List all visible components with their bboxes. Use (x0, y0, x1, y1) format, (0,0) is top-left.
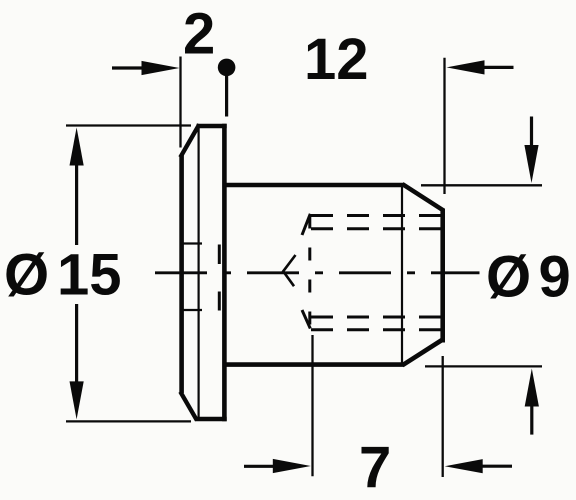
hidden thread line top inner (311, 227, 441, 230)
svg-text:7: 7 (359, 435, 391, 500)
flange top edge (197, 124, 227, 129)
dim 2: dot stem (225, 74, 228, 117)
flange lower tick line (180, 309, 202, 311)
svg-text:2: 2 (183, 2, 215, 67)
body bottom-right chamfer (402, 339, 443, 365)
dim dia9: upper arrowhead (down) (524, 145, 538, 183)
dim 7: right extension line (442, 356, 444, 477)
dim dia9: bottom extension line (425, 365, 542, 367)
dim 12: arrow line (484, 66, 514, 69)
body top-right chamfer (402, 184, 443, 211)
dim dia9: top extension line (421, 184, 542, 186)
hidden hole bottom face (vertical dashed) (308, 216, 311, 331)
dim dia15: bottom arrowhead (down) (70, 381, 84, 419)
dim dia15: lower dim line segment (75, 304, 78, 383)
dim 2: terminating dot (218, 59, 236, 77)
hidden edge in flange (lower dash) (218, 292, 221, 311)
dim 2: arrowhead (142, 61, 180, 75)
drill cone lower dashed segment (302, 310, 310, 329)
svg-text:9: 9 (539, 245, 571, 310)
body chamfer tangent line (thin) (401, 187, 403, 363)
body right face (440, 209, 445, 343)
dim 2: arrow line (112, 66, 142, 69)
dim dia15: upper dim line segment (75, 164, 78, 245)
flange chamfer tangent line (thin) (198, 127, 200, 418)
dim dia15: bottom extension line (66, 420, 191, 422)
dim 7: left arrowhead (right) (273, 459, 311, 473)
dim dia15: top extension line (66, 124, 191, 126)
svg-text:Ø: Ø (486, 245, 531, 310)
flange bottom-left chamfer (180, 392, 197, 421)
hidden thread line top outer (311, 214, 441, 217)
dim 7: right arrowhead (left) (445, 459, 483, 473)
dim 2: extension line (179, 57, 181, 148)
svg-text:12: 12 (304, 27, 369, 92)
hidden thread line bottom outer (311, 328, 441, 331)
dim dia9: lower arrow line (530, 405, 533, 435)
flange top-left chamfer (180, 124, 199, 157)
flange right face (222, 124, 227, 422)
dim dia9: upper arrow line (530, 117, 533, 148)
hidden edge in flange (upper dash) (218, 245, 221, 265)
dim 7: left arrow line (244, 465, 273, 468)
dim 7: left extension line (311, 335, 313, 476)
svg-text:15: 15 (57, 243, 122, 308)
flange upper tick line (180, 242, 202, 244)
body top edge (227, 183, 404, 188)
centerline (part axis, dash-dot) (155, 271, 480, 274)
drill cone upper dashed segment (302, 214, 310, 235)
svg-text:Ø: Ø (4, 243, 49, 308)
body bottom edge (227, 362, 404, 367)
hidden thread line bottom inner (311, 316, 441, 319)
dim dia15: top arrowhead (up) (70, 128, 84, 166)
dim 12: extension line (443, 58, 445, 194)
flange left face (179, 156, 184, 394)
flange bottom edge (195, 417, 227, 422)
drill cone tip chevron (283, 255, 295, 286)
dim 7: right arrow line (482, 465, 512, 468)
dim 12: arrowhead (447, 60, 485, 74)
dim dia9: lower arrowhead (up) (525, 369, 539, 407)
